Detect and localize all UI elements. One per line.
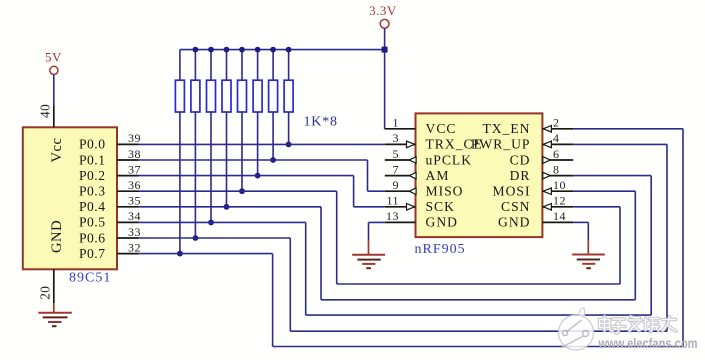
svg-text:9: 9 — [393, 178, 400, 192]
svg-text:DR: DR — [510, 168, 531, 183]
wire R5 bottom to P0.3 row — [241, 112, 243, 191]
svg-text:2: 2 — [553, 116, 560, 130]
svg-text:5V: 5V — [45, 50, 62, 65]
wire P0.2 to SCK pin 11 — [139, 175, 354, 177]
svg-text:37: 37 — [128, 162, 141, 176]
resistor R5 (1K) — [241, 50, 243, 81]
89C51 pin 32 (P0.7) stub — [117, 253, 139, 255]
wire nRF905 pin 13 GND to ground — [369, 221, 385, 223]
svg-text:P0.2: P0.2 — [79, 168, 106, 183]
resistor R4 (1K) — [226, 50, 228, 81]
svg-text:TX_EN: TX_EN — [482, 121, 530, 136]
svg-text:12: 12 — [553, 194, 566, 208]
nRF905 pin 2 (TX_EN) stub — [542, 128, 573, 130]
junction P0.5 / R3 — [208, 220, 214, 226]
svg-text:13: 13 — [386, 209, 399, 223]
junction rail / R8 — [286, 47, 292, 53]
svg-text:7: 7 — [393, 162, 400, 176]
nRF905 pin 14 (GND) stub — [542, 221, 573, 223]
resistor R3 (1K) — [210, 50, 212, 81]
89C51 pin 39 (P0.0) stub — [117, 143, 139, 145]
svg-text:1K*8: 1K*8 — [304, 114, 338, 129]
svg-text:GND: GND — [49, 220, 65, 253]
svg-text:MISO: MISO — [426, 184, 464, 199]
nRF905 pin 7 (AM) stub — [385, 175, 416, 177]
nRF905 pin 10 (MOSI) stub — [542, 190, 573, 192]
resistor R8 (1K) — [288, 50, 290, 81]
svg-text:P0.0: P0.0 — [79, 137, 106, 152]
svg-text:MOSI: MOSI — [493, 184, 531, 199]
junction rail / R6 — [255, 47, 261, 53]
nRF905 pin 9 (MISO) stub — [385, 190, 416, 192]
resistor pull-up rail wire — [180, 49, 385, 51]
svg-text:SCK: SCK — [426, 199, 455, 214]
junction rail / R4 — [224, 47, 230, 53]
89C51 pin 40 (Vcc) stub — [53, 106, 55, 127]
svg-text:Vcc: Vcc — [49, 137, 65, 162]
pin 4 input arrow — [543, 141, 551, 148]
junction P0.6 / R2 — [193, 235, 199, 241]
svg-text:P0.5: P0.5 — [79, 215, 106, 230]
junction rail / 3.3V wire — [382, 47, 388, 53]
watermark logo circle (elecfans) — [559, 308, 594, 350]
IC U1 89C51 body — [23, 127, 117, 269]
svg-text:40: 40 — [37, 104, 52, 118]
junction P0.1 / R7 — [270, 157, 276, 163]
wire R6 bottom to P0.2 row — [257, 112, 259, 176]
89C51 pin 36 (P0.3) stub — [117, 190, 139, 192]
pin 12 input arrow — [543, 204, 551, 211]
svg-text:10: 10 — [553, 178, 566, 192]
nRF905 pin 3 (TRX_CE) stub — [385, 143, 416, 145]
svg-text:38: 38 — [128, 147, 141, 161]
svg-text:P0.7: P0.7 — [79, 246, 106, 261]
ground symbol below 89C51 — [53, 303, 55, 313]
wire R8 bottom to P0.0 row — [288, 112, 290, 144]
wire R7 bottom to P0.1 row — [272, 112, 274, 160]
svg-text:4: 4 — [553, 131, 560, 145]
nRF905 pin 12 (CSN) stub — [542, 206, 573, 208]
pin 11 input arrow — [407, 204, 415, 211]
power port 3.3V circle — [380, 19, 389, 28]
svg-text:AM: AM — [426, 168, 450, 183]
resistor R7 (1K) — [272, 50, 274, 81]
nRF905 pin 1 (VCC) stub — [385, 128, 416, 130]
nRF905 pin 5 (uPCLK) stub — [385, 159, 416, 161]
89C51 pin 33 (P0.6) stub — [117, 237, 139, 239]
svg-text:GND: GND — [426, 215, 458, 230]
power port 5V circle — [50, 66, 58, 74]
resistor R1 (1K) — [179, 50, 181, 81]
89C51 pin 20 (GND) stub — [53, 269, 55, 303]
nRF905 pin 4 (PWR_UP) stub — [542, 143, 573, 145]
svg-text:3: 3 — [393, 131, 400, 145]
svg-text:8: 8 — [553, 162, 560, 176]
junction rail / R7 — [270, 47, 276, 53]
svg-text:89C51: 89C51 — [69, 271, 111, 286]
nRF905 pin 8 (DR) stub — [542, 175, 573, 177]
89C51 pin 38 (P0.1) stub — [117, 159, 139, 161]
resistor R2 (1K) — [194, 50, 196, 81]
wire 5V supply to pin 40 — [53, 75, 55, 106]
wire R4 bottom to P0.4 row — [226, 112, 228, 207]
svg-text:uPCLK: uPCLK — [426, 152, 473, 167]
pin 9 output arrow — [409, 188, 416, 195]
svg-text:34: 34 — [128, 209, 141, 223]
wire P0.0 to TRX_CE pin 3 — [139, 143, 385, 145]
junction P0.7 / R1 — [177, 251, 183, 257]
svg-text:GND: GND — [498, 215, 530, 230]
svg-text:VCC: VCC — [426, 121, 457, 136]
wire P0.4 to MOSI pin 10 — [139, 206, 322, 208]
wire R2 bottom to P0.6 row — [194, 112, 196, 238]
svg-text:35: 35 — [128, 194, 141, 208]
svg-text:www.elecfans.com: www.elecfans.com — [598, 336, 698, 351]
nRF905 pin 13 (GND) stub — [385, 221, 416, 223]
pin 8 output arrow — [543, 172, 550, 179]
wire R3 bottom to P0.5 row — [210, 112, 212, 222]
svg-text:nRF905: nRF905 — [415, 242, 466, 257]
wire P0.6 to PWR_UP pin 4 — [139, 237, 291, 239]
svg-text:14: 14 — [553, 209, 566, 223]
resistor R6 (1K) — [257, 50, 259, 81]
svg-text:P0.1: P0.1 — [79, 152, 106, 167]
svg-text:CSN: CSN — [501, 199, 530, 214]
pin 7 output arrow — [409, 172, 416, 179]
wire R1 bottom to P0.7 row — [179, 112, 181, 254]
nRF905 pin 11 (SCK) stub — [385, 206, 416, 208]
pin 10 input arrow — [543, 188, 551, 195]
junction P0.0 / R8 — [286, 142, 292, 148]
pin 6 output arrow — [543, 157, 550, 164]
89C51 pin 37 (P0.2) stub — [117, 175, 139, 177]
svg-text:P0.4: P0.4 — [79, 199, 106, 214]
svg-text:P0.3: P0.3 — [79, 184, 106, 199]
svg-text:11: 11 — [386, 194, 399, 208]
svg-text:P0.6: P0.6 — [79, 230, 106, 245]
junction rail / R2 — [193, 47, 199, 53]
svg-text:6: 6 — [553, 147, 560, 161]
nRF905 pin 6 (CD) stub — [542, 159, 573, 161]
wire P0.5 to DR pin 8 — [139, 221, 306, 223]
pin 5 output arrow — [409, 157, 416, 164]
89C51 pin 35 (P0.4) stub — [117, 206, 139, 208]
svg-text:20: 20 — [37, 286, 52, 300]
wire P0.7 to TX_EN pin 2 — [139, 253, 273, 255]
wire 3.3V down to nRF905 VCC — [384, 28, 386, 129]
ground symbol below nRF905 pin 13 — [368, 240, 370, 255]
junction rail / R3 — [208, 47, 214, 53]
pin 2 input arrow — [543, 126, 551, 133]
junction P0.4 / R4 — [224, 204, 230, 210]
wire nRF905 pin 14 GND to ground — [573, 221, 588, 223]
svg-text:1: 1 — [393, 116, 400, 130]
ground symbol below nRF905 pin 14 — [587, 240, 589, 255]
svg-text:39: 39 — [128, 131, 141, 145]
watermark chinese text 电子发烧友 (approximated strokes) — [600, 317, 677, 334]
svg-text:36: 36 — [128, 178, 141, 192]
svg-text:CD: CD — [510, 152, 531, 167]
wire P0.1 to MISO pin 9 — [139, 159, 368, 161]
svg-text:3.3V: 3.3V — [369, 3, 397, 18]
svg-text:PWR_UP: PWR_UP — [471, 137, 531, 152]
junction P0.2 / R6 — [255, 173, 261, 179]
svg-text:32: 32 — [128, 240, 141, 254]
svg-text:33: 33 — [128, 225, 141, 239]
wire P0.3 to CSN pin 12 — [139, 190, 337, 192]
junction rail / R5 — [239, 47, 245, 53]
89C51 pin 34 (P0.5) stub — [117, 221, 139, 223]
junction P0.3 / R5 — [239, 188, 245, 194]
IC U2 nRF905 body — [416, 113, 543, 237]
pin 3 input arrow — [407, 141, 415, 148]
svg-text:5: 5 — [393, 147, 400, 161]
